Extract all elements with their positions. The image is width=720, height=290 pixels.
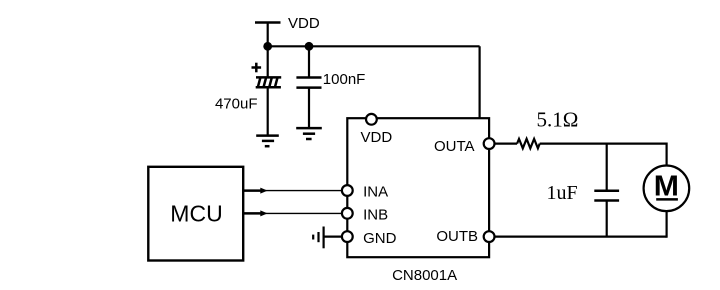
IC U1 CN8001A body bbox=[347, 118, 489, 257]
arrowhead INA bbox=[260, 188, 267, 194]
wire C2 top lead bbox=[308, 46, 310, 77]
svg-text:INB: INB bbox=[363, 207, 388, 224]
wire VDD rail bbox=[268, 45, 480, 47]
arrowhead INB bbox=[260, 210, 267, 216]
svg-text:100nF: 100nF bbox=[323, 71, 366, 88]
junction at C2 bbox=[305, 42, 314, 51]
svg-text:OUTB: OUTB bbox=[436, 228, 478, 245]
capacitor C3 1uF bbox=[594, 191, 619, 201]
svg-text:INA: INA bbox=[363, 184, 388, 201]
svg-text:5.1Ω: 5.1Ω bbox=[537, 108, 579, 132]
svg-text:VDD: VDD bbox=[288, 15, 320, 32]
wire OUTB rail bbox=[495, 236, 667, 238]
ground under C1 bbox=[256, 136, 279, 147]
pin VDD of U1 bbox=[366, 114, 377, 125]
svg-text:MCU: MCU bbox=[170, 201, 222, 227]
pin INB of U1 bbox=[342, 208, 353, 219]
svg-text:470uF: 470uF bbox=[215, 95, 258, 112]
resistor R1 bbox=[517, 139, 540, 148]
wire OUTA to R1 bbox=[495, 143, 518, 145]
junction at C1 bbox=[263, 42, 272, 51]
svg-text:CN8001A: CN8001A bbox=[392, 267, 457, 284]
pin OUTB of U1 bbox=[484, 231, 495, 242]
ground at U1 GND bbox=[313, 227, 323, 249]
power symbol VDD bbox=[255, 23, 281, 47]
wire R1 to motor bbox=[540, 143, 667, 145]
pin GND of U1 bbox=[342, 231, 353, 242]
svg-text:GND: GND bbox=[363, 230, 397, 247]
wire C1 top lead bbox=[267, 46, 269, 77]
svg-text:M: M bbox=[654, 170, 679, 202]
capacitor C1 470uF electrolytic bbox=[252, 63, 282, 88]
motor M1 bbox=[644, 166, 690, 212]
wire rail to U1 bbox=[479, 46, 481, 118]
pin OUTA of U1 bbox=[484, 138, 495, 149]
wire MCU to INB bbox=[244, 212, 342, 215]
svg-text:OUTA: OUTA bbox=[434, 138, 475, 155]
wire MCU to INA bbox=[244, 189, 342, 192]
wire C3 bottom lead bbox=[606, 201, 608, 237]
wire C2 bottom lead bbox=[308, 88, 310, 128]
svg-text:VDD: VDD bbox=[361, 129, 393, 146]
wire GND pin to ground bbox=[324, 236, 342, 238]
wire motor bottom bbox=[665, 211, 667, 238]
svg-text:1uF: 1uF bbox=[547, 182, 578, 204]
ground under C2 bbox=[296, 128, 322, 139]
pin INA of U1 bbox=[342, 185, 353, 196]
wire C3 top lead bbox=[606, 144, 608, 191]
block MCU bbox=[148, 167, 243, 261]
wire C1 bottom lead bbox=[267, 87, 269, 135]
capacitor C2 100nF bbox=[296, 78, 321, 88]
wire down to motor top bbox=[665, 143, 667, 166]
